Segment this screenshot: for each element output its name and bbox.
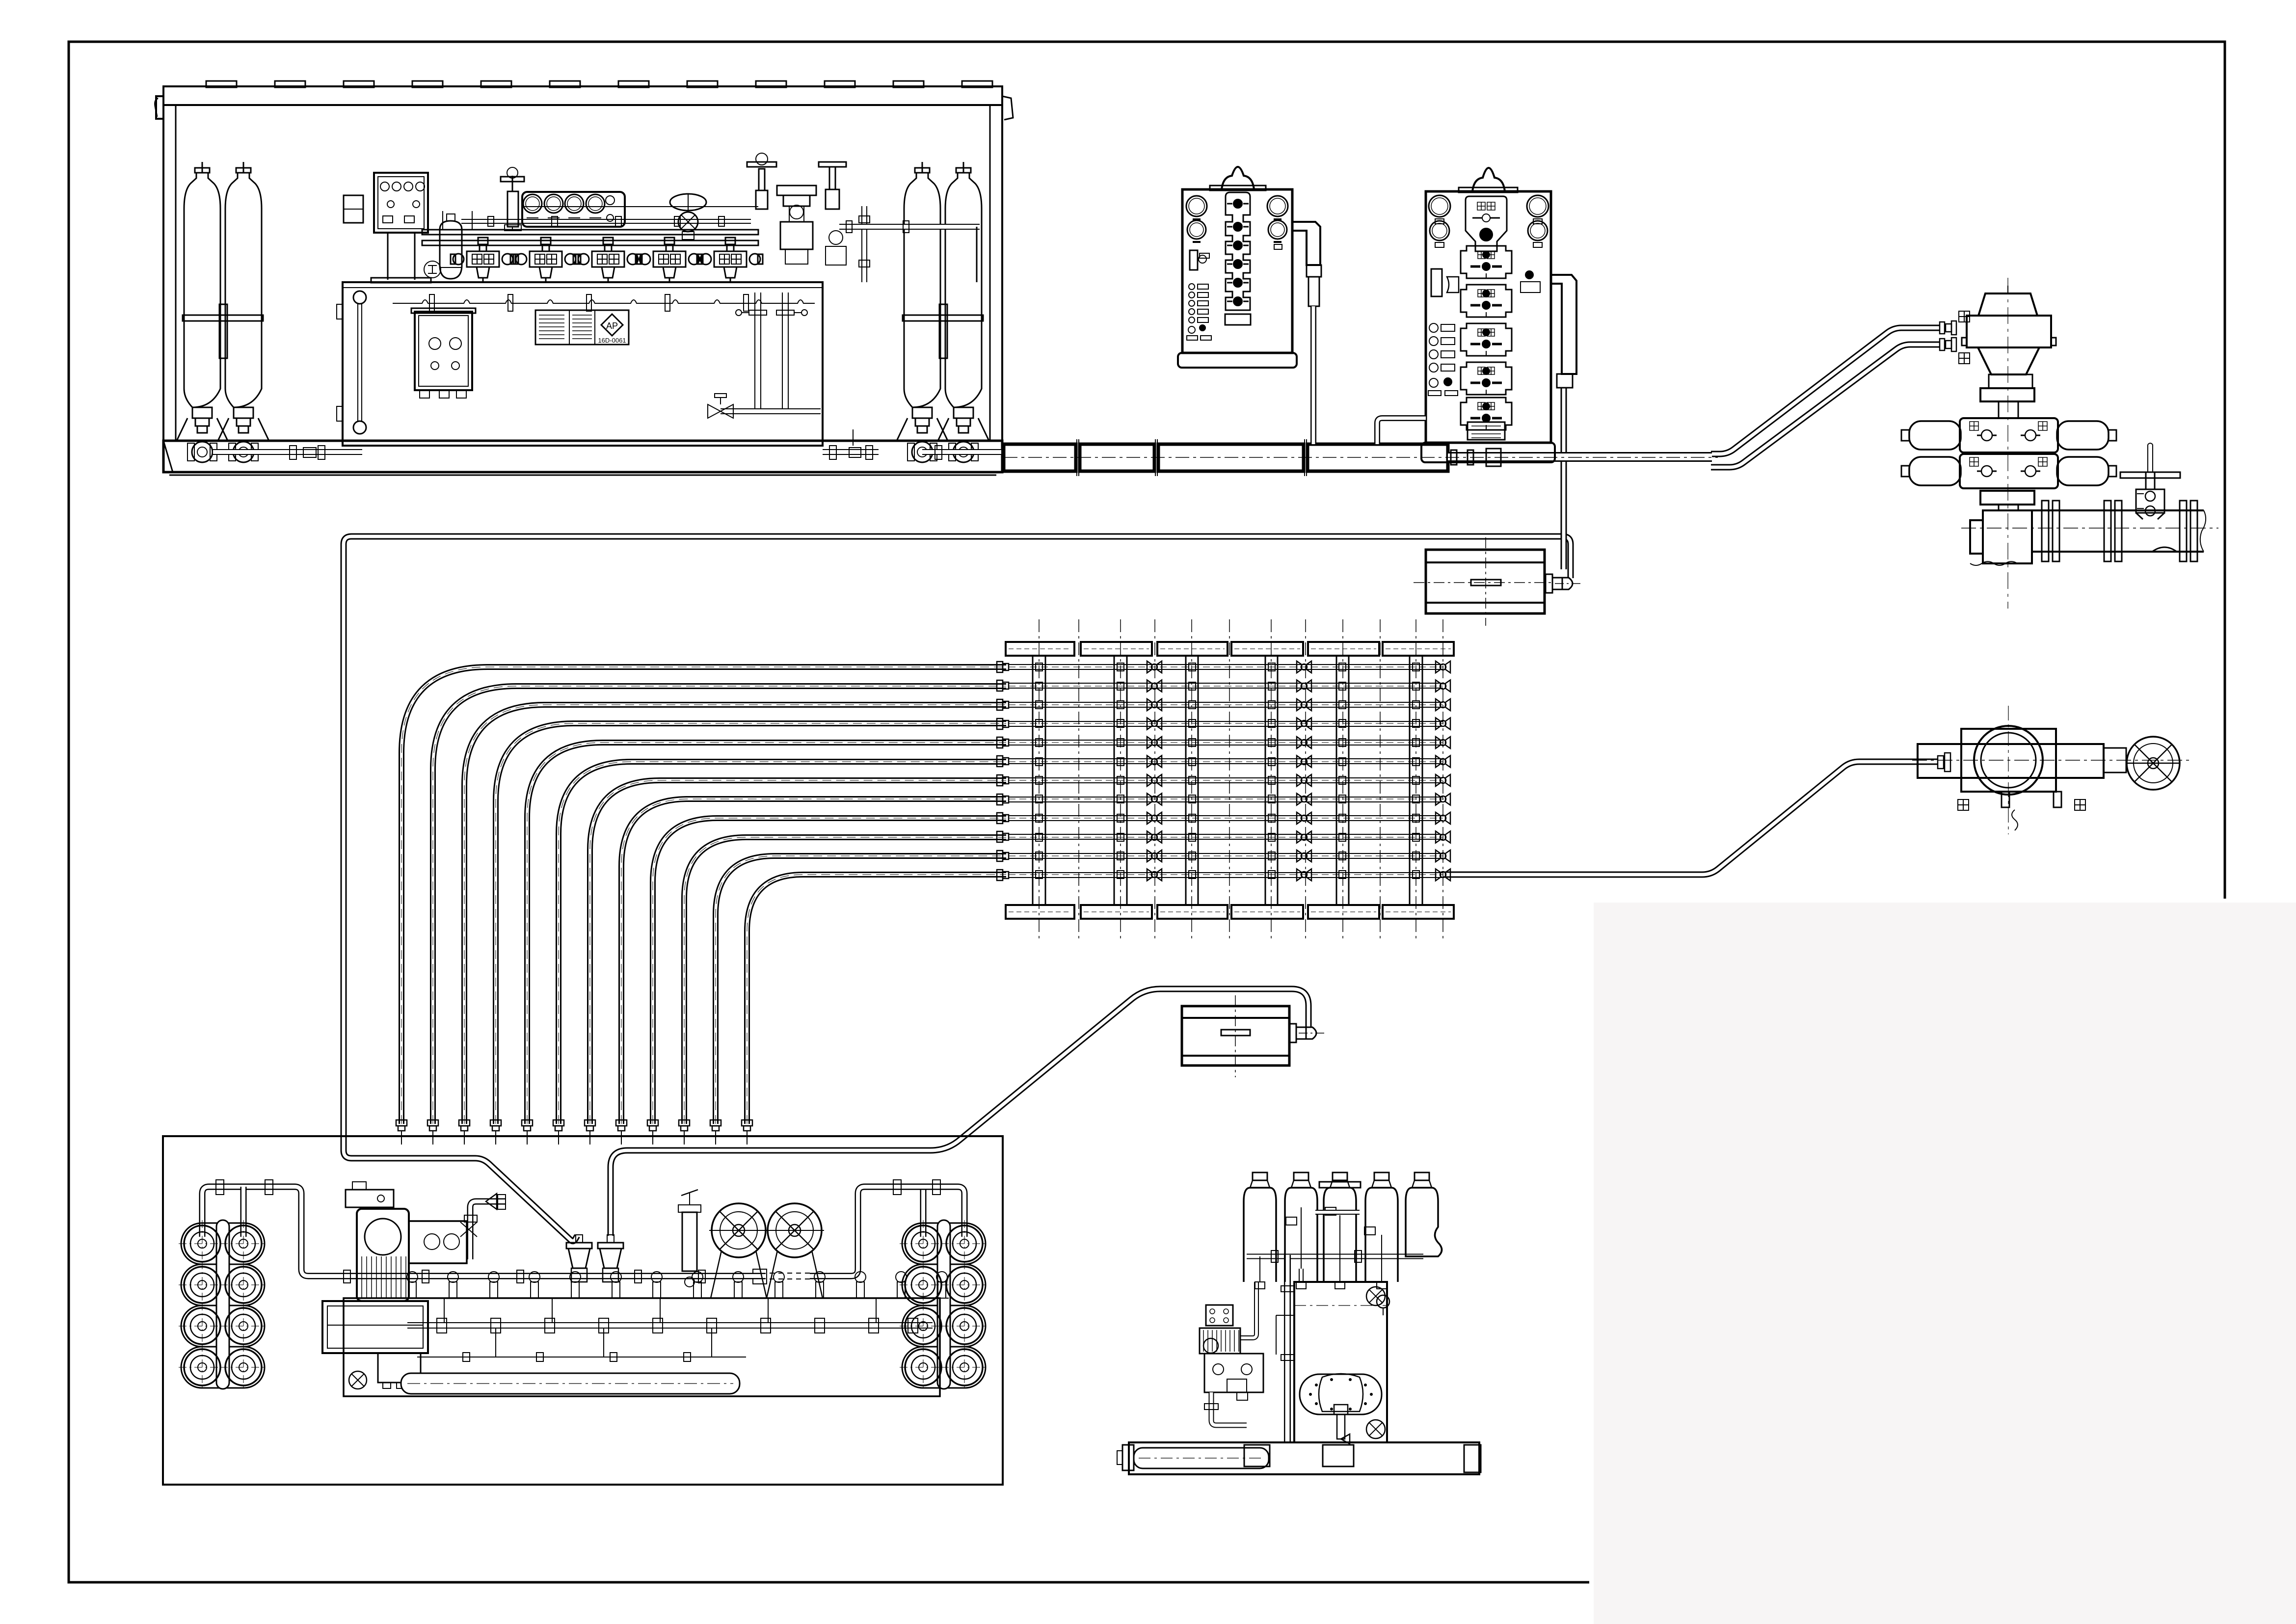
flowline flange pair 2 — [2104, 501, 2111, 561]
container left wall — [162, 105, 164, 472]
base pipe right — [922, 449, 1001, 455]
container right wall — [1001, 105, 1003, 472]
hose H2 — [433, 686, 1006, 1124]
tank internal standpipe 2 — [782, 293, 783, 411]
hose H7 — [590, 780, 1006, 1124]
pressure regulator cluster — [777, 186, 816, 195]
regulator outlet piping — [1211, 1392, 1247, 1425]
hose H4 — [496, 723, 1006, 1124]
skid tank — [344, 1298, 940, 1396]
panel P1 hose bracket — [1292, 222, 1320, 265]
bottle clamp left pair — [183, 315, 263, 321]
hose A supply line from junction box J1 to pump skid — [344, 536, 1571, 1241]
regulator reel 1 — [712, 1203, 766, 1257]
pipe centerline — [1004, 457, 1718, 458]
gas bottle B5 — [1406, 1188, 1442, 1256]
accumulator bottle A4 — [938, 162, 989, 441]
hose H10 — [684, 837, 1006, 1124]
panel P2 base — [1421, 443, 1555, 462]
ball valve BV1 mounting lugs — [2002, 792, 2009, 807]
tray bow-tie unions — [1147, 661, 1162, 673]
panel P1 left selector — [1190, 250, 1198, 270]
base block 1 — [1244, 1445, 1270, 1466]
dashed union to pump manifold — [766, 1273, 810, 1274]
panel P2 left selector — [1431, 269, 1442, 296]
pump skid border — [163, 1136, 1003, 1485]
tank level gauge — [353, 291, 366, 304]
relief valve with T-handle — [756, 190, 768, 209]
unit tank — [1294, 1282, 1387, 1442]
wellhead cross — [1970, 510, 2032, 563]
right cluster extra valves — [829, 231, 843, 244]
pipe joint lines — [1076, 439, 1077, 476]
svg-text:16D-0061: 16D-0061 — [598, 337, 626, 344]
gate valve hose fittings open/close — [1940, 322, 1945, 334]
right bank header piping — [920, 1187, 927, 1237]
gas bottle B2 — [1285, 1188, 1317, 1282]
check valve on discharge — [486, 1194, 497, 1209]
junction box J1 — [1426, 550, 1545, 613]
instruction sticker panel — [535, 310, 629, 345]
panel P2 annular control section — [1466, 196, 1507, 251]
panel P2 data plate — [1468, 422, 1505, 440]
tank internal bottom pipe with valve — [721, 408, 821, 414]
panel P1 base — [1178, 353, 1297, 368]
label open — [1959, 311, 1970, 322]
API monogram diamond — [601, 314, 623, 336]
manifold valve station fp1 — [513, 238, 578, 283]
hand pump — [507, 191, 518, 227]
piping to right wall — [839, 224, 980, 230]
gas bottle B1 — [1244, 1188, 1276, 1282]
accumulator bottle A3 isolation valve — [912, 442, 933, 462]
air pump cone 2 — [600, 1249, 621, 1268]
accumulator bottle A4 isolation valve — [953, 442, 974, 462]
unit tank drain valve — [1334, 1405, 1348, 1414]
motor junction box — [346, 1190, 394, 1207]
panel P1 selector valve column — [1226, 192, 1250, 310]
hose bundle right fittings — [997, 662, 1003, 672]
unit center standpipe — [1284, 1255, 1291, 1442]
relief valve column near reels — [682, 1212, 697, 1271]
main hydraulic supply pipe from HPU skid — [1004, 444, 1076, 471]
ball valve BV1 body — [1918, 744, 2104, 778]
control box stand — [387, 233, 389, 280]
skid base band — [163, 441, 1002, 472]
upper thin line — [522, 206, 758, 207]
base cylinder — [1134, 1448, 1269, 1468]
panel P2 gauges — [1429, 195, 1450, 217]
accumulator bottle A3 — [897, 162, 948, 441]
gate valve actuator top cap — [1978, 293, 2037, 316]
gate valve bonnet stack — [1989, 374, 2032, 388]
accumulator bottle A1 — [177, 162, 228, 441]
ball valve centerlines — [1912, 760, 2189, 761]
panel P2 indicator rows — [1429, 323, 1438, 332]
label close — [1959, 353, 1970, 364]
thin pipe continuation to wellhead area — [1448, 452, 1712, 462]
right accumulator bank (8 bottles end view) — [902, 1223, 986, 1264]
left bank header piping — [202, 1187, 481, 1276]
gate valve actuator cone — [1978, 347, 2039, 374]
scan shading bottom-right — [1594, 903, 2296, 1624]
bottle clamp right pair — [903, 315, 983, 321]
hose H11 — [716, 856, 1006, 1124]
panel P1 gauges — [1186, 196, 1207, 216]
hose H1 — [401, 667, 1006, 1124]
left accumulator bank (8 bottles end view) — [181, 1223, 265, 1264]
base right end — [1464, 1445, 1481, 1472]
starter box CB2 — [415, 312, 472, 390]
driller control panel P2 cabinet — [1426, 191, 1551, 443]
hose C from manifold tray to ball valve BV1 — [1443, 762, 1938, 875]
gate valve hydraulic cylinder row 1 — [1960, 418, 2058, 453]
hose H9 — [653, 818, 1006, 1124]
bladder accumulator vessel — [440, 221, 462, 279]
upper return line — [461, 219, 751, 220]
unit gauge — [1377, 1295, 1389, 1308]
VFD lower box — [378, 1353, 421, 1383]
pump manifold piping — [481, 1273, 766, 1279]
air pump cone 1 — [568, 1249, 590, 1268]
container right lifting hook — [1002, 96, 1013, 120]
hose H12 — [747, 875, 1006, 1124]
manifold valve station byu — [451, 238, 515, 283]
wellhead adapter flange — [1980, 491, 2034, 505]
pressure gauge panel — [522, 192, 625, 227]
check valve stem and handle — [2146, 472, 2155, 489]
panel P2 station by — [1461, 398, 1512, 430]
air filter-regulator assembly — [1206, 1305, 1233, 1326]
bypass valve with oval tag — [670, 194, 706, 211]
tray section separator centerlines — [1078, 619, 1079, 940]
hose H5 — [527, 743, 1006, 1124]
tank internal vertical drops — [444, 1298, 445, 1323]
hose B from junction box J2 to pump skid — [611, 989, 1308, 1236]
bottle manifold piping — [1247, 1254, 1423, 1259]
unit tank handwheel top — [1366, 1287, 1385, 1305]
unit base frame — [1129, 1442, 1479, 1474]
accumulator bottle A2 isolation valve — [233, 442, 254, 462]
accumulator bottle A2 — [218, 162, 269, 441]
hose H6 — [559, 762, 1006, 1124]
tray top plates — [1006, 642, 1074, 656]
unit tank cover plate — [1300, 1374, 1382, 1414]
tank internal piping row 1 — [407, 1322, 933, 1323]
base pipe mid fittings — [823, 449, 879, 455]
pump handle circle symbol — [424, 261, 441, 278]
HPU container top rail — [163, 86, 1002, 105]
tank internal piping row 2 — [417, 1357, 746, 1358]
tray row couplings at rails — [1036, 663, 1042, 671]
pump coupling and gear pump — [409, 1221, 467, 1263]
panel P2 right indicator — [1525, 271, 1533, 279]
panel P2 station bf — [1461, 246, 1512, 278]
panel P1 indicator rows — [1189, 284, 1195, 290]
tank left handwheel — [349, 1371, 367, 1389]
container left lifting hook — [156, 96, 163, 119]
pump discharge piping — [470, 1201, 506, 1259]
air line valve with T-handle 2 — [819, 162, 846, 167]
tray vertical rails — [1032, 656, 1034, 905]
panel P2 station qf — [1461, 285, 1512, 317]
HPU oil tank — [343, 282, 823, 446]
hose from remote panel P2 to junction box J1 — [1561, 388, 1567, 569]
tank internal standpipe 1 — [754, 293, 755, 411]
gas bottle B3 — [1324, 1188, 1356, 1282]
panel P2 station bf2 — [1461, 323, 1512, 356]
front manifold cylinder — [401, 1373, 740, 1394]
panel P2 hose bracket — [1551, 275, 1576, 374]
valve manifold header — [422, 230, 758, 235]
pipe union fittings — [1451, 450, 1457, 465]
panel P1 hose to main pipe — [1310, 306, 1316, 444]
label close BV — [2075, 799, 2085, 810]
tray row tubes — [1009, 664, 1443, 665]
tank top valve bonnets — [408, 1282, 416, 1298]
label open BV — [1958, 799, 1969, 810]
hose H8 — [621, 799, 1006, 1124]
manifold valve station qf — [637, 238, 702, 283]
manifold valve station fp2 — [576, 238, 641, 283]
ball valve BV1 inlet fitting — [1938, 756, 1944, 769]
panel P2 drain pipe to main pipe — [1377, 418, 1426, 444]
manifold valve station bf — [698, 238, 763, 283]
VFD control cabinet — [322, 1301, 428, 1353]
base block 2 — [1323, 1445, 1354, 1466]
unit inter-piping — [1240, 1282, 1256, 1338]
top rail tabs — [206, 81, 237, 87]
junction box J2 — [1182, 1006, 1289, 1065]
hose bundle lower fittings — [396, 1120, 407, 1126]
flowline pipe — [2032, 509, 2204, 511]
bottle 3 top plate — [1319, 1182, 1361, 1188]
regulator reel 2 — [768, 1203, 822, 1257]
ball valve BV1 handwheel — [2104, 748, 2126, 772]
unit tank handwheel bottom — [1366, 1420, 1385, 1438]
flowline flange pair 3 — [2180, 501, 2187, 561]
base pipe left with unions — [213, 449, 362, 455]
flowline check valve — [2136, 489, 2164, 513]
tray bottom plates — [1006, 905, 1074, 919]
electric motor M1 — [357, 1209, 409, 1301]
accumulator bottle A1 isolation valve — [192, 442, 213, 462]
gate valve actuator bell housing — [1967, 316, 2051, 347]
svg-text:AP: AP — [606, 321, 618, 331]
flowline flange pair 1 — [2042, 501, 2049, 561]
junction box J2 connector — [1289, 1024, 1296, 1042]
gas bottle B4 — [1365, 1188, 1398, 1282]
gate valve hydraulic cylinder row 2 — [1960, 454, 2058, 488]
wellhead centerlines — [1961, 528, 2218, 529]
hose H3 — [464, 705, 1006, 1124]
twin hoses to gate valve actuator: open line — [1711, 328, 1940, 454]
junction box J1 connector — [1546, 574, 1552, 593]
electric control box CB1 — [374, 173, 428, 233]
tank drain gallery piping — [393, 300, 815, 303]
twin hoses to gate valve actuator: close line — [1711, 345, 1940, 467]
panel P2 station fp — [1461, 362, 1512, 395]
remote control panel P1 cabinet — [1182, 189, 1292, 353]
bottle valve fittings — [1255, 1282, 1265, 1289]
